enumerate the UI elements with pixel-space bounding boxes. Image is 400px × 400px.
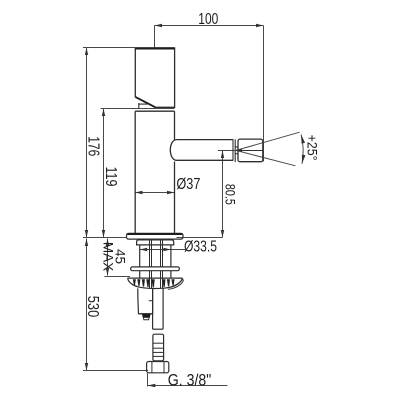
base flange bbox=[127, 233, 184, 239]
collar below flange bbox=[137, 240, 174, 245]
hose nut facet left bbox=[151, 362, 153, 373]
dimension 45 MAX top arrow bbox=[106, 239, 109, 247]
dimension 80.5 top reference tick bbox=[218, 150, 235, 152]
hose nut bbox=[147, 362, 169, 373]
handle top thick edge bbox=[135, 47, 174, 49]
handle diagonal thick line bbox=[136, 97, 156, 107]
dimension 119 line bbox=[103, 109, 105, 238]
extension line 176 top bbox=[83, 47, 135, 49]
handle facet vertical line bbox=[138, 103, 140, 109]
lock nut bowl bbox=[128, 278, 183, 288]
dimension 100 right arrow bbox=[256, 24, 264, 27]
svg-text:100: 100 bbox=[198, 11, 218, 28]
dimension 176 line bbox=[86, 48, 88, 238]
dimension 100 line bbox=[155, 25, 264, 27]
dimension 119 top arrow bbox=[102, 109, 105, 117]
supply tube line b lower bbox=[151, 271, 153, 288]
shank left edge upper bbox=[139, 245, 141, 267]
extension line 119 top bbox=[101, 108, 175, 110]
angle dimension cone bottom line bbox=[236, 150, 295, 165]
svg-text:Ø33.5: Ø33.5 bbox=[184, 238, 217, 255]
supply tube line c lower bbox=[160, 271, 162, 288]
supply pipe right edge bbox=[162, 288, 164, 329]
neck bottom line bbox=[235, 153, 238, 155]
shank right edge upper bbox=[170, 245, 172, 267]
horseshoe washer bbox=[131, 267, 180, 271]
spout left cap arc bbox=[170, 140, 176, 161]
hose connector line 1 bbox=[153, 342, 164, 344]
hose connector line 3 bbox=[153, 351, 164, 353]
hose connector line 4 bbox=[153, 355, 164, 357]
aerator mid line bbox=[238, 150, 263, 152]
dimension 119 bottom arrow bbox=[102, 230, 105, 238]
svg-text:Ø37: Ø37 bbox=[176, 176, 200, 193]
extension line flange left bbox=[83, 237, 127, 239]
aerator body bbox=[238, 139, 263, 162]
svg-text:80.5: 80.5 bbox=[222, 184, 237, 205]
dimension 530 bottom arrow bbox=[85, 363, 88, 371]
dimension 80.5 line bbox=[222, 151, 224, 238]
dimension 45 MAX bottom arrow bbox=[106, 268, 109, 276]
supply pipe bottom cap bbox=[153, 328, 164, 330]
lock nut teeth bbox=[133, 279, 175, 287]
hose connector line 2 bbox=[153, 347, 164, 349]
svg-text:119: 119 bbox=[102, 167, 119, 187]
svg-text:G. 3/8": G. 3/8" bbox=[168, 371, 212, 389]
body right edge lower bbox=[174, 162, 176, 234]
extension line 530 bottom bbox=[83, 370, 148, 372]
base flange thick top bbox=[127, 233, 182, 235]
handle outline bbox=[135, 48, 174, 107]
dimension D37 line bbox=[135, 192, 175, 194]
handle facet horizontal line bbox=[139, 103, 148, 105]
supply tube line a lower bbox=[149, 271, 151, 288]
check valve kink dash bbox=[149, 300, 153, 302]
extension line 100 right bbox=[263, 26, 265, 162]
gasket filled bbox=[142, 314, 151, 318]
angle dimension arc bbox=[301, 135, 303, 164]
dimension D33.5 right arrow bbox=[163, 248, 171, 251]
angle dimension apex arrow bbox=[235, 149, 242, 152]
lock nut wing curve bbox=[163, 279, 183, 290]
extension line 100 left bbox=[154, 26, 156, 48]
dimension D33.5 left arrow bbox=[140, 248, 148, 251]
supply tube line a bbox=[149, 239, 151, 267]
spout top line bbox=[176, 139, 233, 141]
shank right edge lower bbox=[170, 271, 172, 278]
hose nut facet right bbox=[163, 362, 165, 373]
spout end line bbox=[232, 140, 234, 161]
lock nut top line bbox=[128, 277, 183, 279]
supply tube line b bbox=[151, 239, 153, 267]
body top line bbox=[135, 110, 174, 112]
dimension 176 top arrow bbox=[85, 48, 88, 56]
supply pipe left edge bbox=[152, 288, 154, 329]
check valve block bbox=[138, 288, 153, 313]
angle dimension cone top line bbox=[236, 132, 300, 150]
svg-text:176: 176 bbox=[84, 136, 101, 156]
shank left edge lower bbox=[139, 271, 141, 278]
supply tube line d bbox=[162, 239, 164, 267]
extension line flange right bbox=[177, 237, 223, 239]
dimension D33.5 line bbox=[140, 249, 186, 251]
dimension 45 MAX line bbox=[107, 239, 109, 276]
body right edge upper bbox=[174, 111, 176, 140]
dimension 80.5 bottom arrow bbox=[221, 230, 224, 238]
svg-text:530: 530 bbox=[84, 296, 101, 318]
dimension D37 right arrow bbox=[167, 191, 175, 194]
dimension 530 top arrow bbox=[85, 239, 88, 247]
svg-text:+25°: +25° bbox=[305, 135, 321, 161]
dimension 80.5 top arrow bbox=[221, 151, 224, 159]
dimension 100 left arrow bbox=[155, 24, 163, 27]
dimension 45 MAX bottom tick bbox=[105, 276, 131, 278]
spout bottom line bbox=[176, 159, 233, 161]
neck top line bbox=[235, 146, 238, 148]
supply tube line d lower bbox=[162, 271, 164, 288]
gasket tip bbox=[143, 317, 149, 319]
check valve block bottom line bbox=[139, 313, 153, 315]
dimension G 3/8 leader line bbox=[148, 385, 228, 387]
dimension D37 left arrow bbox=[135, 191, 143, 194]
spout ring line bbox=[234, 139, 236, 162]
body left edge bbox=[134, 111, 136, 233]
supply tube line c bbox=[160, 239, 162, 267]
hose connector body bbox=[153, 334, 164, 361]
dimension G 3/8 arrow bbox=[148, 384, 156, 387]
dimension G 3/8 extension line bbox=[147, 373, 149, 386]
dimension 176 bottom arrow bbox=[85, 230, 88, 238]
dimension 530 line bbox=[86, 239, 88, 371]
